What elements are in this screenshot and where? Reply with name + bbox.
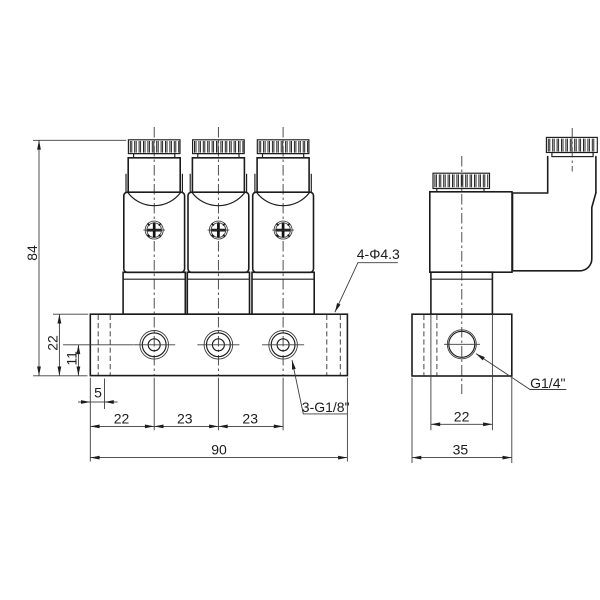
label G1/4 leader [476,354,566,390]
svg-text:G1/4": G1/4" [530,375,565,391]
cable gland centerline [571,128,573,172]
valve 1 screw [143,221,165,239]
valve 1 connector block [128,158,180,193]
svg-text:22: 22 [114,411,130,427]
svg-text:90: 90 [211,442,227,458]
valve 1 gland collar [134,154,175,158]
dim 35 [412,457,512,459]
dim 5 [78,401,90,403]
side coil collar [437,189,484,192]
mounting hole right (hidden) [327,315,341,375]
valve 1 coil shoulder stubs [126,174,182,193]
svg-text:23: 23 [177,411,193,427]
svg-text:4-Φ4.3: 4-Φ4.3 [357,246,400,262]
svg-text:35: 35 [453,442,469,458]
side sub-base [431,272,493,314]
dim 5 extension (hole center) [104,379,106,410]
side coil body [430,192,512,272]
valve 2 coil shoulder stubs [190,174,246,193]
side coil nut (knurled) [433,173,490,188]
cable gland collar [552,153,593,157]
valve 2 connector block [192,158,244,193]
side extension lines [412,314,512,463]
dim 23 (bottom row b) [218,425,283,427]
svg-text:22: 22 [45,335,61,351]
dim 22 vertical extension [53,313,88,315]
valve 2 coil top arc [192,193,245,206]
label 3-G1/8 leader [292,360,348,414]
valve 1 coil body [124,192,185,272]
valve 3 coil shoulder stubs [255,174,311,193]
svg-text:84: 84 [24,245,40,261]
dim 22 (side) [431,423,493,425]
dim 90 [90,457,347,459]
valve 1 sub-base [123,272,185,314]
valve 1 cable-gland nut (knurled) [128,140,180,154]
dim 22 vertical [58,314,60,376]
dim 84 [38,140,40,375]
valve 3 centerline [282,127,284,375]
port 1 G1/8 [133,331,175,360]
dim 23 (bottom row a) [154,425,218,427]
dim 22 (bottom row) [90,425,154,427]
label 4-phi4.3 leader [335,263,398,313]
valve 3 sub-base [252,272,314,314]
side view centerline [461,156,463,394]
mounting hole left (hidden) [98,315,110,375]
svg-text:5: 5 [94,385,102,401]
valve 2 coil body [188,192,249,272]
valve 2 sub-base [187,272,249,314]
valve 3 coil top arc [257,193,310,206]
side mounting hole (hidden) [424,315,437,376]
port G1/4 [444,330,480,359]
valve 3 screw [272,221,294,239]
valve 3 connector block [257,158,309,193]
svg-text:11: 11 [64,351,80,366]
DIN connector block [513,193,596,271]
extension lines bottom row [90,378,347,462]
valve 1 centerline [153,127,155,375]
valve 2 centerline [217,127,219,375]
valve 2 screw [208,221,230,239]
svg-text:22: 22 [454,408,470,424]
valve 2 gland collar [198,154,239,158]
manifold block (side view) [412,314,512,376]
dim 11 extension [63,344,133,346]
dim 84 extension lines [33,140,126,375]
port 3 G1/8 [262,331,304,360]
valve 3 gland collar [263,154,304,158]
svg-text:23: 23 [242,411,258,427]
valve 1 coil top arc [128,193,181,206]
port 2 G1/8 [197,331,239,360]
cable gland stem [548,157,596,193]
dim 11 [77,345,79,376]
valve 3 cable-gland nut (knurled) [257,140,309,154]
valve 2 cable-gland nut (knurled) [193,140,245,154]
svg-text:3-G1/8": 3-G1/8" [302,399,350,415]
manifold block (front view) [90,314,347,375]
cable gland nut (knurled) [546,137,597,152]
valve 3 coil body [253,192,314,272]
